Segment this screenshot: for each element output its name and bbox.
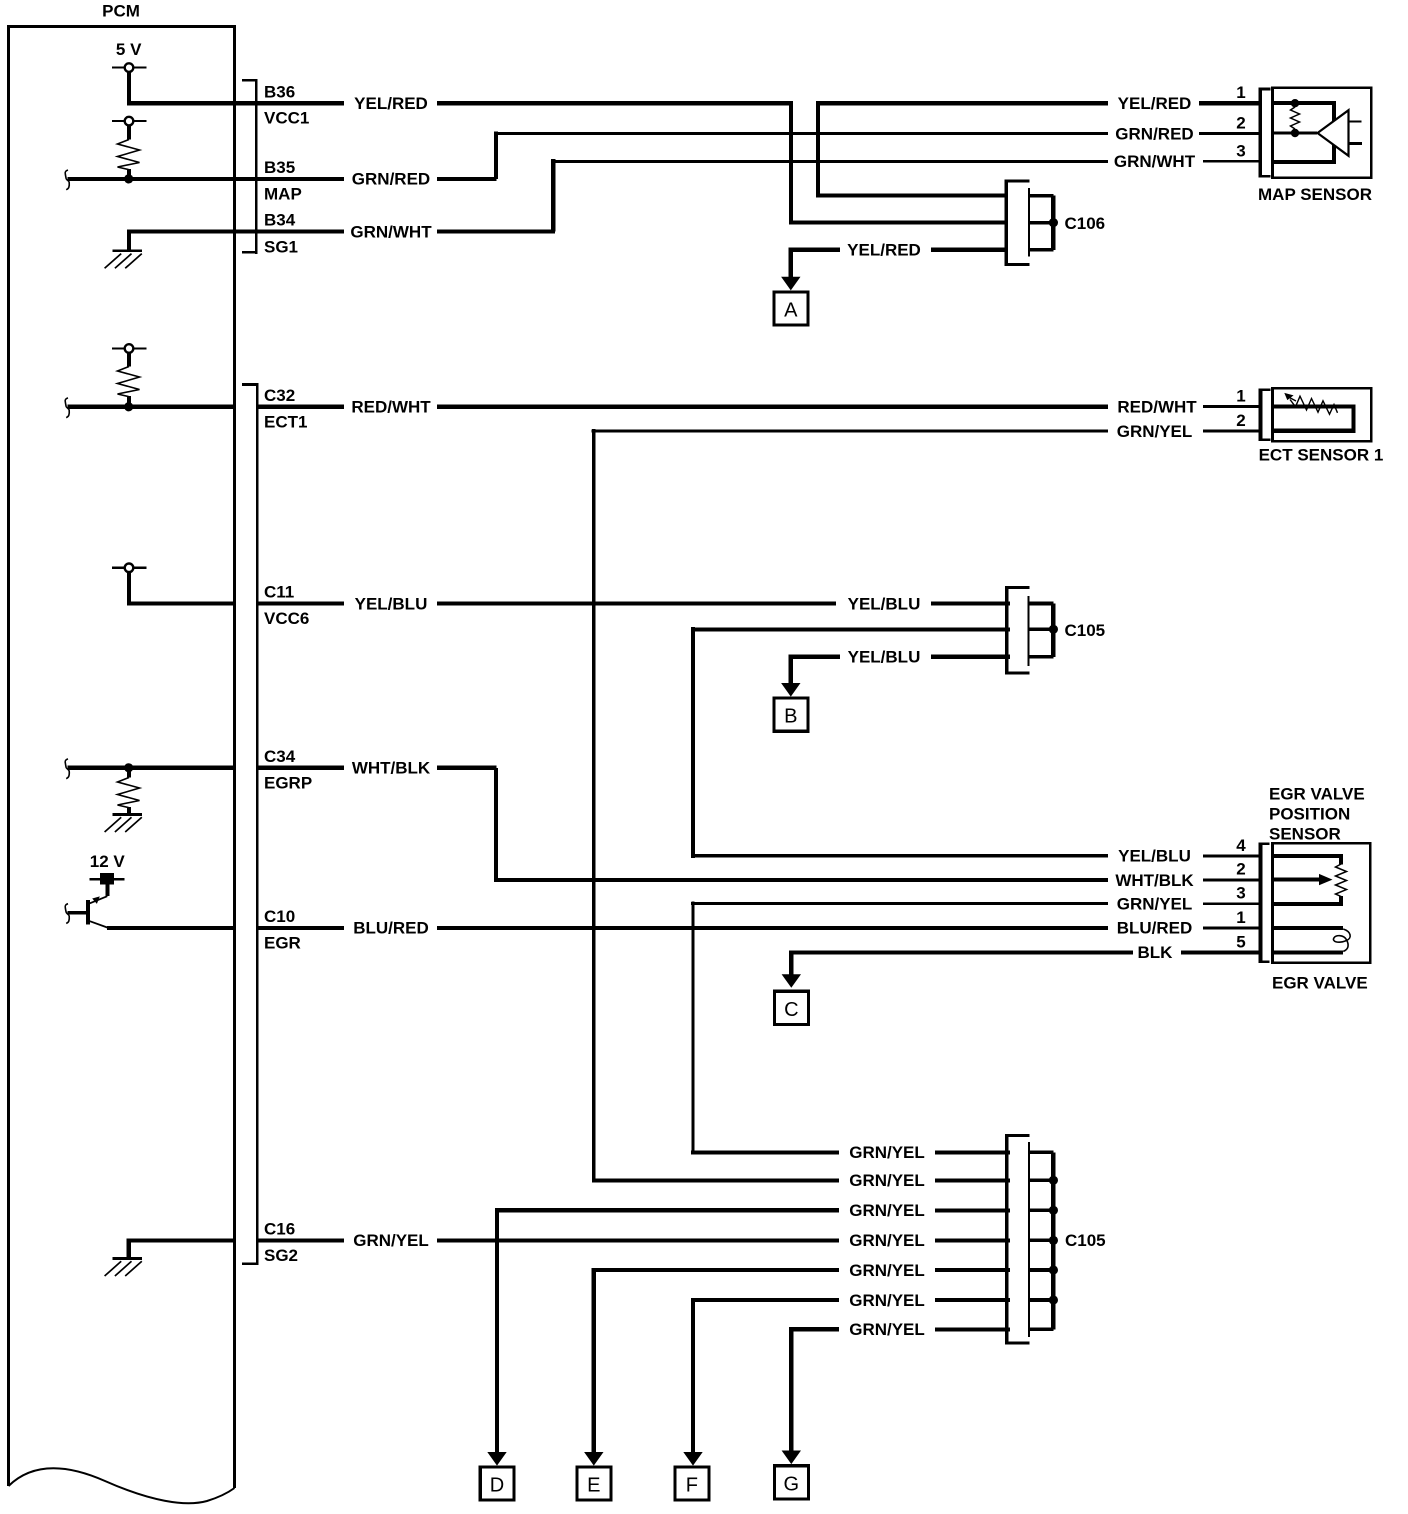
wire C11 YEL/BLU right of label [437, 601, 836, 605]
svg-text:C: C [784, 999, 798, 1021]
svg-text:YEL/BLU: YEL/BLU [848, 648, 921, 667]
junction node on C34 wire [124, 763, 133, 772]
labels GRN/YEL (rows) [849, 1143, 925, 1339]
svg-text:BLK: BLK [1138, 943, 1174, 962]
wire GRN/RED long run to MAP pin 2 [494, 132, 1108, 135]
wire GRN/YEL stub to ECT pin 2 [1203, 430, 1260, 433]
box E [577, 1467, 611, 1500]
junction node on C32 wire [124, 402, 133, 411]
arrow to A [781, 277, 800, 291]
wire YEL/RED branch down at x791 [789, 101, 793, 225]
wire GRN/WHT vertical riser at x553 [551, 159, 555, 231]
wire B36 YEL/RED right of label [437, 101, 793, 105]
svg-text:GRN/YEL: GRN/YEL [849, 1320, 925, 1339]
off-page squiggle C34 [65, 759, 69, 779]
svg-text:B: B [784, 706, 797, 728]
svg-text:G: G [784, 1473, 800, 1495]
svg-text:RED/WHT: RED/WHT [1117, 397, 1197, 416]
svg-text:B34: B34 [264, 211, 296, 230]
svg-text:C105: C105 [1065, 1231, 1106, 1250]
svg-text:PCM: PCM [102, 2, 140, 21]
wire WHT/BLK run to EGR pin 2 [494, 878, 1108, 882]
wire GRN/YEL run to C105 row 4 [437, 1238, 839, 1242]
transistor Q1 [86, 896, 108, 928]
svg-text:GRN/YEL: GRN/YEL [849, 1261, 925, 1280]
box B [774, 698, 808, 731]
arrow to D [487, 1452, 506, 1466]
connector bracket C (PCM pins C32/C11/C34/C10/C16) [242, 383, 257, 1265]
svg-text:ECT1: ECT1 [264, 412, 307, 431]
svg-text:GRN/WHT: GRN/WHT [1114, 152, 1196, 171]
wire C11 YEL/BLU from bracket to label [257, 601, 344, 605]
5V supply symbol (C32 pull-up) [112, 344, 146, 353]
svg-text:C106: C106 [1065, 214, 1106, 233]
svg-text:GRN/RED: GRN/RED [1115, 124, 1193, 143]
ECT sensor 1 [1261, 388, 1372, 441]
svg-text:C10: C10 [264, 907, 295, 926]
svg-text:EGRP: EGRP [264, 773, 312, 792]
svg-text:12 V: 12 V [90, 852, 126, 871]
wire YEL/BLU stub to EGR pin 4 [1203, 855, 1261, 858]
arrow to C [782, 974, 801, 988]
wire C16 GRN/YEL from ground to PCM edge [127, 1238, 236, 1242]
off-page squiggle Q1 base [65, 904, 69, 924]
wire YEL/BLU label to C105 top pin [931, 601, 1010, 605]
junction nodes C105 lower [1049, 1176, 1058, 1305]
wire YEL/RED to C106 middle pin [791, 221, 1008, 225]
off-page squiggle C32 [65, 398, 69, 418]
wire GRN/YEL stub to EGR pin 3 [1203, 902, 1261, 905]
wire C34 WHT/BLK from squiggle to PCM edge [68, 766, 236, 770]
svg-text:EGR VALVE: EGR VALVE [1269, 785, 1365, 804]
wire YEL/RED branch down at x818 to C106 top pin [816, 101, 1008, 198]
PCM box [9, 27, 235, 1504]
wire YEL/RED stub to MAP pin 1 [1199, 101, 1260, 105]
wire YEL/RED segment to MAP pin 1 [816, 101, 1108, 105]
wire GRN/YEL C105 row 5 to E drop [592, 1268, 839, 1453]
svg-text:5 V: 5 V [116, 40, 142, 59]
svg-text:SG1: SG1 [264, 237, 298, 256]
svg-text:C34: C34 [264, 747, 296, 766]
svg-text:F: F [686, 1475, 698, 1497]
svg-text:VCC6: VCC6 [264, 609, 309, 628]
svg-text:GRN/YEL: GRN/YEL [849, 1171, 925, 1190]
label EGR VALVE POSITION SENSOR [1269, 785, 1365, 844]
svg-text:MAP SENSOR: MAP SENSOR [1258, 185, 1372, 204]
wire GRN/YEL C105 row 7 to G drop [789, 1327, 839, 1451]
wire GRN/YEL from EGR pin 3 down to C105 row 1 [691, 901, 1108, 1154]
svg-text:4: 4 [1236, 836, 1246, 855]
svg-text:D: D [490, 1475, 504, 1497]
svg-text:GRN/WHT: GRN/WHT [350, 222, 432, 241]
svg-text:YEL/BLU: YEL/BLU [848, 594, 921, 613]
wires GRN/YEL label to C105 pins [935, 1152, 1010, 1329]
wire GRN/YEL C105 row 6 to F drop [691, 1298, 839, 1453]
12V supply symbol [89, 873, 124, 896]
svg-text:ECT SENSOR 1: ECT SENSOR 1 [1259, 446, 1384, 465]
wire C34 WHT/BLK right of label [437, 766, 497, 770]
junction node C106 [1049, 218, 1058, 227]
svg-text:2: 2 [1236, 114, 1245, 133]
svg-text:C11: C11 [264, 583, 294, 602]
connector bracket B (PCM pins B36/B35/B34) [242, 79, 256, 254]
svg-text:YEL/RED: YEL/RED [1118, 94, 1192, 113]
wire GRN/YEL C105 row 2 [594, 1178, 839, 1182]
wire B34 GRN/WHT right of label [437, 230, 555, 234]
arrow to B [781, 683, 800, 697]
arrow to F [683, 1452, 702, 1466]
ground symbol (C34 pull-down) [105, 815, 142, 833]
svg-text:YEL/RED: YEL/RED [354, 94, 428, 113]
svg-text:MAP: MAP [264, 185, 302, 204]
svg-text:B35: B35 [264, 158, 295, 177]
wire GRN/RED vertical riser at x494.5 [494, 131, 498, 179]
svg-text:1: 1 [1236, 908, 1245, 927]
wire C10 BLU/RED from Q1 to PCM edge [107, 926, 236, 930]
svg-text:EGR VALVE: EGR VALVE [1272, 973, 1368, 992]
svg-text:GRN/YEL: GRN/YEL [849, 1201, 925, 1220]
svg-text:GRN/RED: GRN/RED [352, 170, 430, 189]
svg-text:GRN/YEL: GRN/YEL [849, 1143, 925, 1162]
svg-text:2: 2 [1236, 860, 1245, 879]
connector C106 [1006, 179, 1053, 266]
svg-text:E: E [587, 1475, 600, 1497]
svg-text:WHT/BLK: WHT/BLK [352, 759, 431, 778]
wire C32 RED/WHT from squiggle to PCM edge [68, 405, 236, 409]
wire BLU/RED stub to EGR pin 1 [1203, 927, 1261, 930]
svg-text:YEL/BLU: YEL/BLU [355, 594, 428, 613]
EGR valve position sensor / EGR valve [1261, 843, 1371, 964]
junction node C105 upper [1049, 625, 1058, 634]
wire GRN/WHT stub to MAP pin 3 [1203, 160, 1260, 163]
wire BLK stub to EGR pin 5 [1181, 950, 1261, 954]
5V supply symbol (C11) [112, 564, 146, 573]
resistor pull-up B35 [118, 125, 140, 178]
svg-text:VCC1: VCC1 [264, 109, 309, 128]
wire 5V to pin B36 [127, 72, 344, 103]
wire YEL/RED label to C106 bottom pin [931, 248, 1008, 252]
wire BLK from C drop to EGR pin 5 [789, 950, 1133, 975]
svg-text:C32: C32 [264, 386, 295, 405]
junction node on B35 wire [124, 174, 133, 183]
connector C105 (upper) [1007, 586, 1054, 675]
off-page squiggle B35 [65, 170, 69, 190]
svg-text:POSITION: POSITION [1269, 805, 1350, 824]
wire WHT/BLK vertical riser at x494.5 [494, 768, 498, 882]
svg-text:GRN/YEL: GRN/YEL [1117, 422, 1193, 441]
wire GRN/YEL C105 row 3 to D drop [495, 1208, 839, 1453]
svg-text:C16: C16 [264, 1219, 295, 1238]
svg-text:GRN/YEL: GRN/YEL [1117, 895, 1193, 914]
wire GRN/RED stub to MAP pin 2 [1199, 132, 1260, 135]
wire C32 RED/WHT from bracket to label [257, 405, 344, 409]
svg-text:SG2: SG2 [264, 1246, 298, 1265]
svg-text:BLU/RED: BLU/RED [353, 919, 429, 938]
wire WHT/BLK stub to EGR pin 2 [1203, 878, 1261, 881]
5V supply symbol (B35 pull-up) [112, 117, 146, 126]
wire YEL/BLU label to C105 bottom pin [931, 655, 1010, 659]
svg-text:EGR: EGR [264, 933, 301, 952]
svg-text:C105: C105 [1065, 621, 1106, 640]
box D [480, 1467, 514, 1500]
wire C34 WHT/BLK from bracket to label [257, 766, 344, 770]
wire YEL/BLU run to EGR pin 4 [691, 854, 1108, 857]
svg-text:YEL/RED: YEL/RED [847, 241, 921, 260]
svg-text:A: A [784, 300, 798, 322]
svg-text:BLU/RED: BLU/RED [1117, 919, 1193, 938]
box A [774, 292, 808, 325]
wire GRN/YEL C105 row 1 [691, 1150, 839, 1154]
wire 5V to pin C11 [127, 572, 236, 606]
wire B34 GRN/WHT from ground to bracket [127, 230, 344, 234]
MAP sensor [1260, 88, 1371, 178]
arrow to G [782, 1451, 801, 1465]
box F [675, 1467, 709, 1500]
resistor pull-up C32 [118, 353, 140, 407]
wire RED/WHT stub to ECT pin 1 [1203, 405, 1260, 408]
wire B35 GRN/RED right of label [437, 177, 497, 181]
svg-text:1: 1 [1236, 387, 1245, 406]
svg-text:GRN/YEL: GRN/YEL [849, 1231, 925, 1250]
wire YEL/BLU C105 mid pin to EGR sensor drop [691, 627, 1010, 858]
svg-text:YEL/BLU: YEL/BLU [1118, 847, 1191, 866]
svg-text:GRN/YEL: GRN/YEL [849, 1291, 925, 1310]
svg-text:RED/WHT: RED/WHT [351, 398, 431, 417]
arrow to E [584, 1452, 603, 1466]
wire Q1 base [68, 911, 87, 914]
svg-text:2: 2 [1236, 411, 1245, 430]
5V supply symbol (B36) [112, 63, 146, 72]
wire BLU/RED run to EGR pin 1 [437, 926, 1108, 930]
wire YEL/BLU C105 bottom pin to B drop [789, 655, 840, 684]
box C [775, 991, 809, 1024]
wire C10 BLU/RED from bracket to label [257, 926, 344, 930]
wire C16 GRN/YEL from bracket to label [257, 1238, 344, 1242]
connector C105 (lower) [1007, 1134, 1054, 1345]
svg-text:WHT/BLK: WHT/BLK [1115, 871, 1194, 890]
wire RED/WHT long run to ECT pin 1 [437, 405, 1108, 409]
svg-text:B36: B36 [264, 83, 295, 102]
svg-text:5: 5 [1236, 932, 1245, 951]
box G [775, 1466, 809, 1499]
svg-text:3: 3 [1236, 141, 1245, 160]
svg-text:1: 1 [1236, 83, 1245, 102]
wire GRN/YEL from ECT pin 2 [592, 429, 1108, 1183]
resistor pull-down C34 [118, 768, 140, 814]
wire B35 GRN/RED from squiggle to bracket [68, 177, 345, 181]
wire YEL/RED to connector A drop [789, 248, 840, 278]
ground symbol (B34/SG1) [105, 232, 142, 269]
wire GRN/WHT long run to MAP pin 3 [551, 160, 1108, 163]
ground symbol (C16/SG2) [105, 1240, 142, 1276]
svg-text:GRN/YEL: GRN/YEL [353, 1231, 429, 1250]
svg-text:SENSOR: SENSOR [1269, 825, 1341, 844]
svg-text:3: 3 [1236, 884, 1245, 903]
